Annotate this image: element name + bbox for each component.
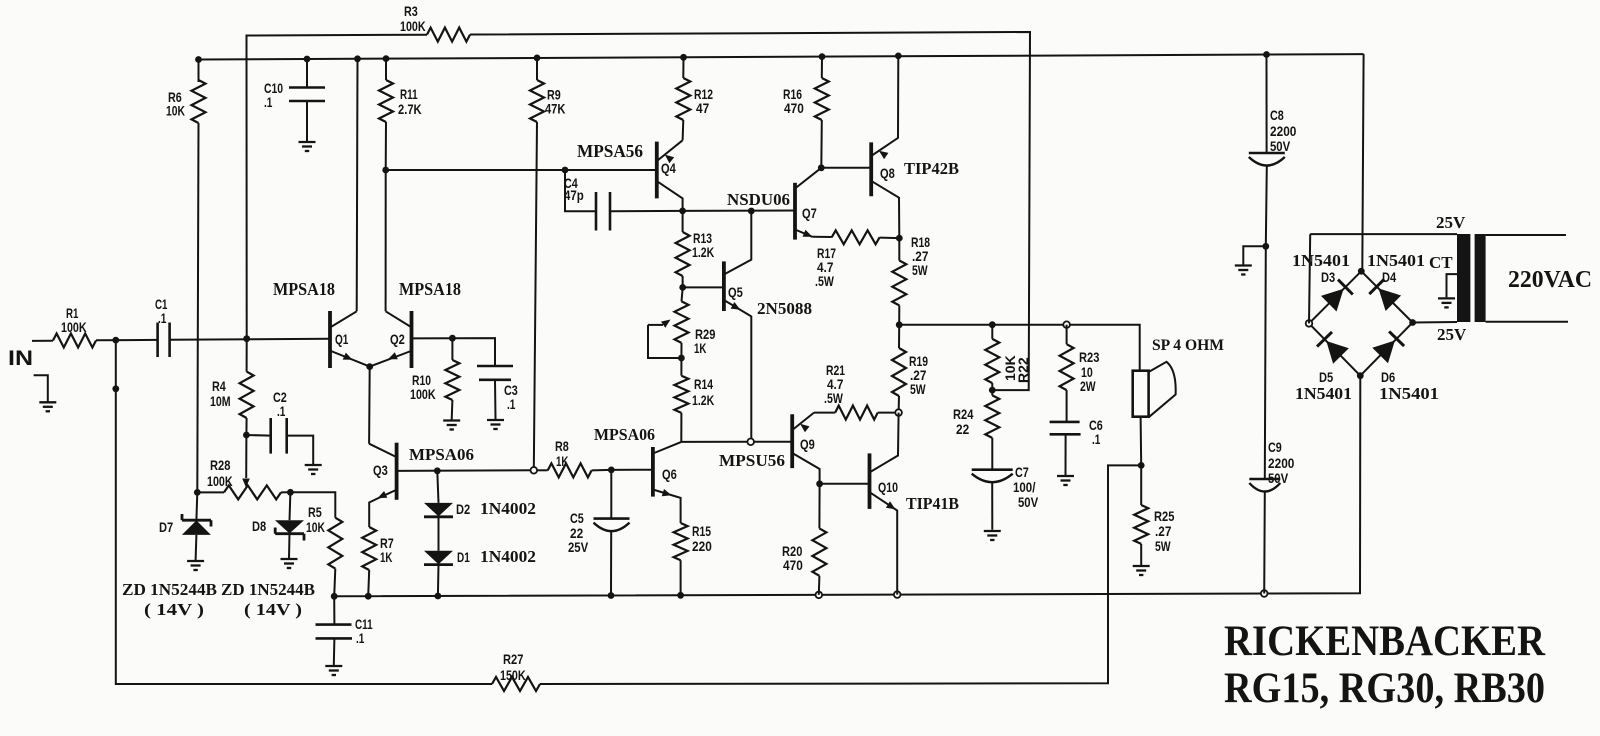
junction bridge top node [1358,268,1365,275]
label MPSU56 [719,451,785,470]
transistor Q7 (NSDU06) [795,168,821,240]
resistor R24 [953,390,999,470]
capacitor C6 [1050,417,1103,475]
svg-text:10M: 10M [210,393,231,409]
svg-text:C9: C9 [1268,439,1282,455]
svg-text:R15: R15 [692,523,711,539]
svg-text:MPSA18: MPSA18 [399,279,461,299]
junction rail/R20 (open) [816,592,823,599]
wire R3 feedback loop (left vertical + top run + right drop to R22 junction) [247,32,1031,390]
svg-text:10K: 10K [1002,355,1018,381]
svg-text:MPSU56: MPSU56 [719,451,785,470]
resistor R4 [210,339,254,435]
svg-text:R14: R14 [694,376,713,392]
svg-text:2200: 2200 [1270,123,1297,139]
ground C7 ground [984,531,1001,540]
svg-text:Q7: Q7 [802,205,817,221]
ground D7 ground [187,561,204,570]
diode D5 (1N5401) [1317,332,1349,385]
junction rail/Q10 emitter (open) [894,591,901,598]
svg-text:ZD 1N5244B: ZD 1N5244B [122,580,217,599]
svg-text:470: 470 [784,100,804,116]
svg-text:.1: .1 [277,403,286,419]
junction R22/R24/R3 feedback [989,387,996,394]
svg-text:1.2K: 1.2K [692,244,714,260]
label TIP41B [906,494,959,513]
junction rail/D1 [435,593,442,600]
svg-text:2W: 2W [1080,378,1096,394]
svg-text:50V: 50V [1268,470,1289,486]
svg-text:25V: 25V [1437,325,1467,344]
label title RG15, RG30, RB30 [1224,665,1545,712]
svg-text:Q1: Q1 [335,331,349,347]
zener D7 (ZD 1N5244B) [159,492,211,560]
svg-text:D4: D4 [1382,269,1396,285]
transformer T1 windings [1457,234,1486,322]
diode D6 (1N5401) [1372,331,1404,385]
label ( 14V ) (D7) [144,600,204,619]
svg-text:MPSA06: MPSA06 [594,425,655,444]
junction rail/R11 [383,55,390,62]
junction input node / R4 column [243,335,250,342]
svg-text:SP 4 OHM: SP 4 OHM [1152,337,1224,354]
label 1N4002 (D2) [480,499,536,518]
wire speaker return [1140,417,1143,466]
wire secondary top 25V [1309,234,1457,323]
svg-text:RG15, RG30, RB30: RG15, RG30, RB30 [1224,665,1545,712]
junction rail/C5 [608,592,615,599]
junction R17/R18/Q8 collector [896,235,903,242]
svg-text:TIP42B: TIP42B [904,159,959,178]
junction rail/R15 [677,592,684,599]
svg-text:2200: 2200 [1268,455,1295,471]
svg-text:R8: R8 [555,438,569,454]
resistor R27 [492,651,540,691]
label 25V (bottom) [1437,325,1467,344]
junction R28 left / D7 [194,489,201,496]
svg-text:50V: 50V [1018,494,1039,510]
wire bridge top-left edge [1309,271,1361,323]
wire input shunt vertical (input node down to R27 run) [116,340,492,684]
svg-text:Q5: Q5 [728,284,743,300]
ground CT ground [1438,298,1455,307]
resistor R6 [166,60,206,493]
junction rail/C8 column [1263,51,1270,58]
transistor Q10 (TIP41B) [870,413,899,595]
transistor Q6 (MPSA06) [653,442,681,522]
svg-text:R28: R28 [210,457,231,473]
label MPSA18 (Q2) [399,279,461,299]
svg-text:.5W: .5W [824,390,843,406]
wire primary bottom [1486,321,1568,323]
ground C10 ground [299,142,316,151]
svg-text:Q3: Q3 [373,462,388,478]
junction R18/R19/output line [896,321,903,328]
svg-text:Q2: Q2 [390,331,405,347]
svg-text:10K: 10K [306,519,325,535]
wire Q8 base wire [821,167,871,169]
svg-text:D7: D7 [159,519,173,535]
label MPSA06 (Q6) [594,425,655,444]
junction Q5 emitter/Q9 base (open) [747,439,754,446]
svg-text:R5: R5 [308,504,322,520]
wire R27 run to speaker return [540,465,1141,684]
junction R28 right / D8 / R5 [287,489,294,496]
ground C3 ground [487,420,504,429]
svg-text:5W: 5W [1155,538,1171,554]
resistor R10 [410,338,459,419]
junction rail/Q1 collector [354,55,361,62]
svg-text:1N5401: 1N5401 [1292,251,1350,270]
svg-text:MPSA06: MPSA06 [409,445,474,464]
transistor Q5 (2N5088) [724,212,751,442]
svg-text:NSDU06: NSDU06 [727,190,790,209]
junction output/R22 [989,321,996,328]
wire R11 to Q2 collector [385,170,387,311]
junction bottom rail left end / C11 [331,593,338,600]
svg-text:Q4: Q4 [661,160,676,176]
svg-text:C7: C7 [1015,464,1029,480]
svg-text:.1: .1 [1092,431,1101,447]
capacitor C2 [246,389,313,464]
junction R29/R14 [678,355,685,362]
resistor R9 [530,58,565,470]
label SP 4 OHM [1152,337,1224,354]
label 1N5401 (D5) [1295,384,1352,403]
label CT [1429,253,1453,272]
svg-text:CT: CT [1429,253,1453,272]
svg-text:.1: .1 [158,310,167,326]
svg-text:220: 220 [692,538,712,554]
ground D8 ground [281,559,298,568]
junction R10 tap [449,335,456,342]
svg-text:47: 47 [696,100,709,116]
junction rail/R7 [365,593,372,600]
label 1N5401 (D3) [1292,251,1350,270]
svg-text:25V: 25V [568,539,589,555]
label NSDU06 [727,190,790,209]
junction Q1/Q2 common emitters [366,363,373,370]
resistor R14 [674,358,714,442]
capacitor C8 (2200/50V electrolytic) [1249,55,1297,247]
junction rail/C10 [304,56,311,63]
svg-text:1N5401: 1N5401 [1379,384,1439,403]
ground C2 ground [305,465,322,474]
svg-text:R25: R25 [1154,508,1175,524]
svg-text:R11: R11 [400,86,418,102]
svg-text:MPSA18: MPSA18 [273,279,335,299]
wire secondary bottom 25V [1413,321,1457,324]
svg-text:470: 470 [783,557,803,573]
svg-text:100/: 100/ [1013,479,1035,495]
svg-text:D2: D2 [456,501,470,517]
svg-text:47K: 47K [545,101,565,117]
label ZD 1N5244B (D7) [122,580,217,599]
svg-text:Q6: Q6 [662,466,677,482]
svg-text:R27: R27 [503,651,524,667]
svg-text:100K: 100K [61,319,87,335]
speaker SP 4 OHM [1133,362,1176,418]
svg-text:2.7K: 2.7K [398,101,422,117]
svg-text:MPSA56: MPSA56 [577,141,643,161]
label MPSA18 (Q1) [273,279,335,299]
label 1N5401 (D6) [1379,384,1439,403]
svg-text:150K: 150K [500,667,526,683]
wire V+ rail (top supply rail) [200,54,1364,59]
ground C11 ground [325,666,342,675]
resistor R3 [400,3,470,42]
wire Q10 base wire [820,483,870,485]
junction rail/R12 [680,54,687,61]
svg-text:Q8: Q8 [880,165,895,181]
junction R11 bottom / Q4 base tap [382,167,389,174]
wire common emitter down to Q3 [368,367,371,444]
ground input jack ground [34,375,57,411]
svg-text:5W: 5W [910,381,926,397]
svg-text:1N4002: 1N4002 [480,499,536,518]
junction output/R23 (open) [1063,321,1070,328]
svg-text:D5: D5 [1319,369,1333,385]
svg-text:2N5088: 2N5088 [757,299,812,318]
label title RICKENBACKER [1224,618,1546,665]
wire Q9 base wire [751,441,793,443]
svg-text:D8: D8 [252,518,266,534]
svg-text:( 14V ): ( 14V ) [244,600,302,619]
resistor R22 (vertical label) [985,325,1031,390]
resistor R23 [1060,325,1100,422]
resistor R16 [783,57,829,168]
junction Q4 collector / C4 / R13 / NSDU06 wire [679,208,686,215]
resistor R29 (trimmer 1K) [648,287,716,358]
svg-text:R23: R23 [1079,349,1100,365]
diode D4 (1N5401) [1369,269,1401,311]
svg-text:TIP41B: TIP41B [906,494,959,513]
resistor R11 [379,59,422,170]
resistor R18 [892,234,930,325]
wire bridge top-right edge [1361,271,1412,322]
svg-text:IN: IN [8,347,33,370]
svg-text:D1: D1 [457,549,470,565]
svg-text:D3: D3 [1321,269,1335,285]
label 220VAC [1508,267,1592,293]
wire Q5 base wire [683,286,724,288]
resistor R25 [1134,465,1174,565]
diode D2 (1N4002) [424,471,470,551]
resistor R20 [782,484,826,595]
svg-text:R3: R3 [404,3,418,19]
svg-text:10K: 10K [166,103,185,119]
resistor R13 [676,211,715,288]
capacitor C11 [316,596,373,665]
label 2N5088 [757,299,812,318]
svg-text:.1: .1 [356,630,365,646]
svg-text:C5: C5 [570,510,584,526]
label 25V (top) [1436,213,1466,232]
transistor Q4 (MPSA56) [657,140,683,211]
svg-text:1K: 1K [380,549,392,565]
junction bridge bottom node [1357,372,1364,379]
junction Q5 collector / NSDU06 wire [748,208,755,215]
svg-text:D6: D6 [1381,369,1395,385]
junction speaker return/R25 [1138,462,1145,469]
svg-text:R4: R4 [212,378,226,394]
transistor Q8 (TIP42B) [871,56,899,238]
label ( 14V ) (D8) [244,600,302,619]
resistor R28 (trimmer with wiper arrow) [197,435,290,499]
junction Q3 base / D2 tap [434,467,441,474]
wire CT center tap [1447,274,1458,297]
junction R4/C2/R28 wiper [243,432,250,439]
svg-text:( 14V ): ( 14V ) [144,600,204,619]
wire primary top [1486,234,1566,236]
capacitor C7 (100/50V electrolytic) [972,464,1039,530]
label 1N4002 (D1) [480,547,536,566]
wire bridge bottom-right edge [1360,323,1412,376]
junction Q9 collector/Q10 base/R20 [816,480,823,487]
zener D8 (ZD 1N5244B) [252,492,304,558]
svg-text:100K: 100K [410,386,436,402]
junction rail/C9 (open) [1261,590,1268,597]
label IN [8,347,33,370]
svg-text:5W: 5W [912,262,928,278]
resistor R8 [537,438,611,477]
diode D1 (1N4002) [424,549,470,596]
wire NSDU06 bias wire [683,210,795,212]
svg-text:50V: 50V [1270,138,1291,154]
junction C8/ground tap [1262,243,1269,250]
wire V+ rail to bridge top (right end drop) [1362,54,1363,271]
resistor R7 [362,524,394,596]
svg-text:C8: C8 [1270,107,1284,123]
junction R16/Q7 collector/Q8 base [818,164,825,171]
capacitor C3 [477,366,518,419]
junction C4 tap [562,167,569,174]
wire R14 node to Q9 base [681,441,747,443]
ground supply ground tap [1235,246,1266,274]
svg-text:47p: 47p [564,187,584,203]
svg-text:R24: R24 [953,406,974,422]
junction bridge right node [1409,319,1416,326]
transistor Q2 (MPSA18) [370,311,412,368]
resistor R15 [674,522,712,595]
junction rail/R6 [195,56,202,63]
resistor R1 [53,305,96,348]
junction R13/R29/Q5 base [679,284,686,291]
svg-text:.1: .1 [507,396,516,412]
wire Q3 base run [397,469,533,472]
label 1N5401 (D4) [1367,251,1425,270]
resistor R19 [892,325,928,413]
transistor Q3 (MPSA06) [369,443,397,524]
resistor R21 [814,362,895,420]
svg-text:220VAC: 220VAC [1508,267,1592,293]
svg-text:ZD 1N5244B: ZD 1N5244B [221,580,315,599]
label ZD 1N5244B (D8) [221,580,315,599]
svg-text:1K: 1K [556,453,568,469]
svg-text:Q9: Q9 [800,436,815,452]
resistor R12 [676,57,713,140]
svg-text:1N5401: 1N5401 [1295,384,1352,403]
svg-text:1K: 1K [694,340,706,356]
svg-text:.27: .27 [1155,523,1172,539]
junction bridge left node (open) [1306,320,1313,327]
wire Q6 base wire [611,469,653,471]
wire Q1 collector column [356,59,359,311]
svg-text:RICKENBACKER: RICKENBACKER [1224,618,1546,665]
svg-text:1N4002: 1N4002 [480,547,536,566]
label TIP42B [904,159,959,178]
svg-text:Q10: Q10 [878,479,898,495]
ground C6 ground [1057,476,1074,485]
ground R25 ground [1133,566,1150,575]
junction on input shunt [112,385,119,392]
svg-text:1.2K: 1.2K [692,392,714,408]
junction R9/R8/Q3-base (open) [531,467,538,474]
capacitor C5 (22/25V electrolytic) [568,470,630,596]
capacitor C1 [155,296,170,357]
wire bottom ground rail [334,376,1360,597]
wire bridge bottom-left edge [1309,323,1360,375]
label MPSA06 (Q3) [409,445,474,464]
svg-text:100K: 100K [207,473,233,489]
transistor Q9 (MPSU56) [792,413,819,484]
svg-text:22: 22 [956,421,969,437]
wire Q4 base run [386,169,657,171]
junction rail/R9 [534,55,541,62]
junction rail/R16 [819,53,826,60]
capacitor C10 [264,59,325,141]
wire Q2 base to C3 [412,338,496,366]
junction R19/R21/Q10 collector (open) [895,409,902,416]
resistor R17 [812,230,899,289]
svg-text:25V: 25V [1436,213,1466,232]
ground R10 ground [443,421,460,430]
wire input line (IN to Q1 base) [32,339,330,341]
svg-text:100K: 100K [400,18,426,34]
diode D3 (1N5401) [1321,269,1353,312]
transistor Q1 (MPSA18) [330,311,370,368]
wire output line [899,325,1139,371]
svg-text:1N5401: 1N5401 [1367,251,1425,270]
svg-text:.5W: .5W [815,273,834,289]
junction input node [112,337,119,344]
capacitor C4 (47p) [564,170,683,231]
junction rail/Q8 emitter [895,53,902,60]
svg-text:.1: .1 [264,94,273,110]
junction R8/Q6 base/C5 [608,467,615,474]
resistor R5 [290,492,342,596]
capacitor C9 (2200/50V electrolytic) [1249,246,1294,593]
label MPSA56 [577,141,643,161]
